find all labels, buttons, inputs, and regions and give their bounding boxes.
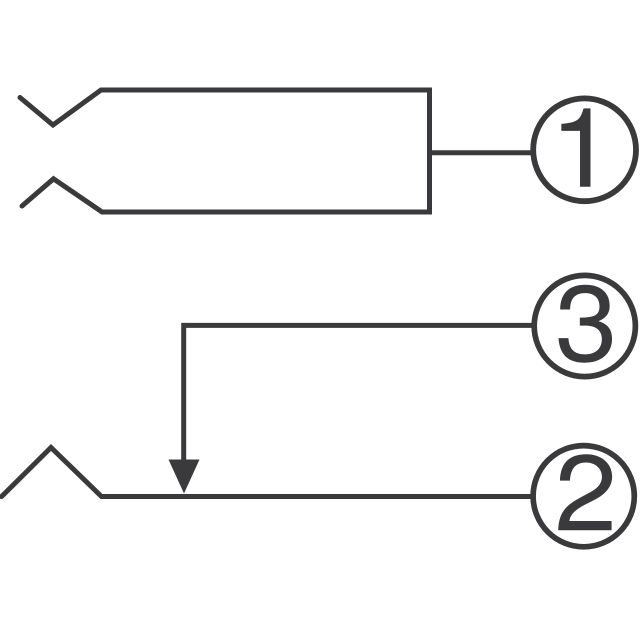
connector J1 sleeve outline (plug body with chevron tip) [20,90,430,212]
pin number 3 [558,285,612,363]
terminal circle pin 2 [533,446,634,547]
tip contact zigzag and wire to circle 2 [2,448,534,497]
pin number 1 [561,108,590,186]
terminal circle pin 3 [534,275,635,376]
wire pin3: horizontal from circle 3 and vertical drop [184,325,533,462]
pin number 2 [558,454,612,530]
terminal circle pin 1 [533,98,636,201]
wire pin1 to terminal circle 1 [430,150,535,155]
arrowhead pointing to sleeve contact line [169,460,200,494]
